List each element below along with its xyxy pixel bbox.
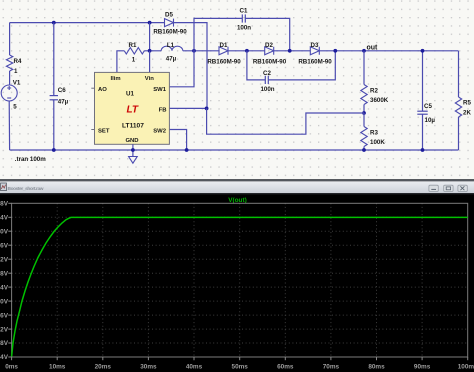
svg-text:U1: U1	[126, 91, 134, 98]
svg-text:.tran 100m: .tran 100m	[15, 156, 46, 163]
junction GND rail	[131, 148, 135, 152]
pin stub AO	[91, 87, 94, 89]
svg-text:LT: LT	[127, 105, 139, 116]
svg-text:100n: 100n	[237, 25, 251, 32]
svg-text:R5: R5	[463, 100, 471, 107]
voltage source V1	[1, 85, 17, 101]
svg-text:D5: D5	[165, 12, 173, 19]
svg-text:Ilim: Ilim	[111, 76, 121, 82]
wire D1 cathode to D2 anode	[228, 50, 265, 52]
svg-text:R3: R3	[370, 130, 378, 137]
diode D3	[310, 47, 319, 55]
wire R2 bottom to FB node	[363, 105, 365, 114]
trace V(out)	[12, 217, 468, 356]
junction R1/L1/Vin node	[148, 49, 152, 53]
svg-text:C1: C1	[240, 7, 248, 14]
svg-text:90ms: 90ms	[414, 363, 431, 370]
capacitor C5	[417, 51, 427, 150]
wire R3 bottom to rail	[363, 147, 365, 151]
svg-text:2K: 2K	[463, 110, 471, 117]
svg-text:48V: 48V	[0, 201, 9, 208]
svg-text:C2: C2	[263, 70, 271, 77]
svg-text:LT1107: LT1107	[122, 123, 144, 130]
junction top rail / C6	[52, 21, 56, 25]
junction node B	[245, 49, 249, 53]
resistor R1	[124, 48, 144, 54]
svg-text:V1: V1	[13, 80, 21, 87]
wire Vin drop from top rail	[149, 23, 151, 51]
svg-text:8V: 8V	[0, 340, 9, 347]
svg-text:FB: FB	[159, 108, 167, 114]
svg-text:100ms: 100ms	[458, 363, 474, 370]
svg-text:28V: 28V	[0, 270, 9, 277]
svg-text:Vin: Vin	[145, 76, 154, 82]
svg-text:RB160M-90: RB160M-90	[207, 58, 241, 65]
svg-text:36V: 36V	[0, 242, 9, 249]
wire out rail D3 to R5	[319, 50, 458, 52]
title bar	[0, 181, 474, 194]
svg-text:60ms: 60ms	[277, 363, 294, 370]
svg-text:R2: R2	[370, 88, 378, 95]
junction C2 right / out rail	[333, 49, 337, 53]
svg-text:50ms: 50ms	[232, 363, 249, 370]
svg-text:20ms: 20ms	[95, 363, 112, 370]
svg-text:40V: 40V	[0, 228, 9, 235]
svg-text:SET: SET	[98, 129, 110, 135]
wire FB pin to junction	[169, 107, 206, 109]
svg-text:12V: 12V	[0, 326, 9, 333]
y-axis ticks	[8, 203, 11, 357]
junction FB node	[205, 107, 209, 111]
diode D5	[165, 19, 174, 27]
svg-text:10ms: 10ms	[49, 363, 66, 370]
svg-text:1: 1	[14, 68, 18, 75]
wire FB routing to divider	[207, 108, 364, 134]
svg-text:4V: 4V	[0, 354, 9, 361]
window top border	[0, 179, 474, 181]
svg-text:out: out	[367, 45, 379, 52]
plot horizontal gridlines	[12, 217, 468, 343]
wire R1 right to node A junction	[144, 50, 161, 52]
junction node A	[192, 49, 196, 53]
y-axis labels	[0, 201, 9, 362]
svg-text:100K: 100K	[370, 139, 385, 146]
svg-text:0ms: 0ms	[5, 363, 18, 370]
svg-text:AO: AO	[98, 87, 107, 93]
wire GND pin to rail	[132, 144, 134, 156]
wire L1 to D1 anode (node A)	[183, 50, 219, 52]
junction node C	[288, 49, 292, 53]
svg-text:GND: GND	[125, 138, 138, 144]
svg-text:24V: 24V	[0, 284, 9, 291]
svg-text:SW2: SW2	[153, 129, 166, 135]
wire D2 cathode to D3 anode	[274, 50, 311, 52]
plot vertical gridlines	[57, 203, 422, 357]
pin stub SET	[91, 129, 94, 131]
wire R1 left lead and Ilim pin drop	[117, 51, 124, 73]
junction SW2 bottom	[185, 148, 189, 152]
wire D5 cathode to FB vertical	[174, 23, 208, 109]
wire C1 left leg	[194, 18, 242, 50]
svg-text:1: 1	[132, 57, 136, 64]
wire R5 top lead	[458, 51, 460, 97]
svg-text:30ms: 30ms	[140, 363, 157, 370]
resistor R2	[361, 85, 367, 105]
svg-text:70ms: 70ms	[323, 363, 340, 370]
x-axis labels	[5, 363, 474, 370]
junction C5 bottom	[421, 148, 425, 152]
diode D1	[219, 47, 228, 55]
svg-text:10µ: 10µ	[425, 117, 436, 124]
restore button	[444, 185, 453, 191]
wire C2 left leg	[247, 51, 265, 80]
wire Vin pin drop	[149, 51, 151, 73]
junction R2/R3/FB	[362, 111, 366, 115]
junction bottom rail / C6	[52, 148, 56, 152]
svg-text:3600K: 3600K	[370, 97, 389, 104]
svg-text:100n: 100n	[260, 86, 274, 93]
svg-text:RB160M-90: RB160M-90	[253, 58, 287, 65]
wire SW1 connection	[169, 51, 194, 87]
resistor R5	[455, 97, 461, 117]
wire R4 to V1	[9, 71, 11, 85]
svg-text:44V: 44V	[0, 215, 9, 222]
minimize button	[429, 185, 438, 191]
svg-text:C5: C5	[424, 103, 432, 110]
wire top rail from V1 to D5 anode	[10, 22, 164, 24]
inductor L1	[161, 46, 183, 51]
svg-text:RB160M-90: RB160M-90	[153, 28, 187, 35]
wire left rail V1 top	[9, 23, 11, 55]
svg-text:R1: R1	[129, 42, 137, 49]
svg-text:SW1: SW1	[153, 87, 166, 93]
svg-text:D1: D1	[220, 42, 228, 49]
svg-text:16V: 16V	[0, 312, 9, 319]
wire bottom rail	[10, 149, 459, 151]
plot border	[12, 203, 468, 357]
diode D2	[265, 47, 274, 55]
wire R3 top lead	[363, 113, 365, 127]
wire SW2 to bottom rail	[169, 130, 186, 151]
junction top rail / Vin drop	[148, 21, 152, 25]
resistor R4	[6, 55, 12, 71]
capacitor C6	[50, 23, 58, 150]
wire C2 right leg	[268, 51, 335, 80]
junction R3 bottom	[362, 148, 366, 152]
svg-text:5: 5	[13, 104, 17, 111]
capacitor C1	[242, 14, 245, 22]
waveform window frame	[0, 179, 474, 372]
svg-text:C6: C6	[58, 87, 66, 94]
svg-text:L1: L1	[167, 42, 175, 49]
wire R2 top lead	[363, 51, 365, 85]
x-axis ticks	[12, 357, 468, 360]
svg-text:32V: 32V	[0, 256, 9, 263]
wire V1 to bottom rail	[8, 101, 10, 150]
ground symbol	[129, 157, 138, 164]
svg-text:40ms: 40ms	[186, 363, 203, 370]
svg-text:D2: D2	[265, 42, 273, 49]
svg-text:47µ: 47µ	[58, 99, 69, 106]
junction R2 top	[362, 49, 366, 53]
svg-text:R4: R4	[14, 58, 22, 65]
svg-text:20V: 20V	[0, 298, 9, 305]
wire C1 right leg	[245, 18, 289, 50]
window icon	[1, 183, 7, 191]
capacitor C2	[265, 76, 268, 84]
op-amp U1 LT1107 body	[95, 72, 170, 144]
svg-text:D3: D3	[311, 42, 319, 49]
resistor R3	[361, 127, 367, 147]
junction C5 top	[421, 49, 425, 53]
svg-text:47µ: 47µ	[166, 56, 177, 63]
svg-text:Booster_short.raw: Booster_short.raw	[8, 186, 44, 192]
svg-text:80ms: 80ms	[368, 363, 385, 370]
wire R5 bottom lead	[458, 117, 460, 150]
svg-text:RB160M-90: RB160M-90	[298, 58, 332, 65]
close button	[458, 185, 467, 191]
